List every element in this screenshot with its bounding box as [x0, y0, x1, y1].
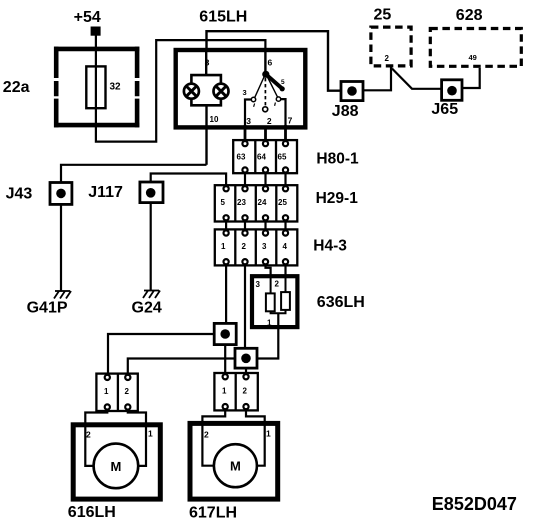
svg-text:1: 1: [266, 429, 271, 439]
svg-text:J65: J65: [431, 101, 458, 118]
ground G24 symbol: [143, 291, 160, 299]
svg-text:7: 7: [288, 116, 293, 126]
connector H4-3: [215, 229, 297, 265]
wire lamp pin 10 down: [205, 105, 207, 164]
svg-text:5: 5: [221, 198, 226, 207]
wire 616LH connector to motor pin 1: [128, 410, 146, 426]
svg-text:65: 65: [278, 153, 287, 162]
wire pin 49 of 628 to J65: [462, 68, 480, 88]
node +54 terminal square: [91, 27, 101, 36]
wire J88 to pin 2 of 25: [363, 68, 391, 91]
wire H4-3 pin 3 to 636LH pin 3: [266, 265, 271, 276]
wire J43 to ground G41P: [60, 204, 62, 291]
wire 617LH connector to motor pin 2: [202, 410, 225, 425]
wire H4-3 pin 4 to 636LH pin 2: [284, 265, 286, 276]
svg-text:E852D047: E852D047: [432, 494, 517, 514]
switch leg pin 7: [281, 99, 286, 125]
svg-text:49: 49: [469, 53, 477, 62]
wire J117 to ground G24: [150, 203, 152, 291]
svg-text:3: 3: [246, 116, 251, 126]
svg-text:24: 24: [258, 198, 267, 207]
svg-text:1: 1: [148, 429, 153, 439]
svg-text:2: 2: [242, 242, 247, 251]
switch lever: [266, 74, 282, 88]
wire J117 to H29-1 pin 5: [151, 174, 226, 186]
svg-text:2: 2: [86, 430, 91, 440]
svg-text:3: 3: [262, 242, 267, 251]
wires 615LH pins 3 2 7 to H80-1: [244, 125, 247, 141]
connector 628 dashed box: [430, 29, 521, 67]
resistor unit 636LH box: [252, 276, 297, 327]
switch left throw line: [255, 77, 264, 98]
svg-text:25: 25: [374, 7, 392, 24]
wire 636LH pin 1 to junction B: [257, 313, 278, 358]
svg-text:615LH: 615LH: [199, 9, 247, 26]
wire junction A to 617LH connector pin 1: [224, 345, 226, 374]
wire H4-3 pin 1 to junction A: [225, 265, 227, 324]
motor 617LH box: [190, 423, 278, 499]
tick below right contact: [274, 103, 277, 106]
lamp L2 right bulb: [214, 84, 229, 99]
svg-text:H29-1: H29-1: [316, 190, 359, 207]
svg-text:63: 63: [237, 153, 246, 162]
switch mid dashed line: [264, 78, 266, 106]
ground G41P symbol: [54, 291, 71, 299]
resistor R2 right: [285, 276, 287, 292]
svg-text:1: 1: [104, 387, 109, 396]
junction J88: [341, 82, 363, 101]
wire resistor bottoms join: [271, 310, 286, 313]
wire junction B to 617LH connector pin 2: [245, 368, 247, 374]
svg-text:6: 6: [268, 58, 273, 68]
svg-text:617LH: 617LH: [189, 505, 237, 522]
svg-text:5: 5: [281, 79, 285, 86]
svg-text:25: 25: [278, 198, 287, 207]
junction J43: [50, 183, 72, 205]
switch right contact: [276, 97, 280, 101]
svg-text:M: M: [230, 459, 241, 474]
wire H4-3 pin 2 to junction B: [244, 265, 246, 348]
svg-text:2: 2: [275, 280, 280, 289]
switch S1 pin 6 stem: [264, 49, 266, 74]
motor 616LH box: [73, 425, 160, 499]
svg-text:2: 2: [204, 430, 209, 440]
junction J117: [140, 182, 163, 203]
connector H29-1: [215, 185, 297, 221]
wires H29-1 to H4-3: [225, 222, 227, 235]
combination switch unit 615LH box: [176, 50, 306, 127]
lamp bracket bottom: [191, 98, 221, 105]
connector above 617LH: [214, 373, 257, 410]
switch left contact: [251, 97, 255, 101]
junction A box: [214, 323, 236, 344]
svg-text:10: 10: [210, 115, 219, 124]
wires H80-1 to H29-1: [244, 173, 246, 186]
svg-text:22a: 22a: [3, 79, 30, 96]
lamp bracket top: [191, 75, 221, 84]
svg-text:2: 2: [243, 387, 248, 396]
wire +54 to fuse 22a: [95, 36, 97, 68]
svg-text:M: M: [110, 459, 121, 474]
wire 616LH inner left: [85, 426, 93, 466]
svg-text:J88: J88: [332, 103, 359, 120]
wire 616LH inner right: [138, 426, 146, 466]
svg-text:2: 2: [385, 54, 390, 63]
switch mid contact: [263, 107, 268, 112]
svg-text:H4-3: H4-3: [313, 238, 347, 255]
svg-text:636LH: 636LH: [317, 294, 365, 311]
junction B box: [235, 348, 257, 368]
connector 25 dashed box: [371, 27, 411, 66]
svg-text:1: 1: [267, 319, 272, 328]
wire pin 10 to J43: [61, 165, 207, 183]
svg-text:H80-1: H80-1: [316, 150, 359, 167]
svg-text:32: 32: [110, 81, 122, 92]
wire 617LH connector to motor pin 1: [246, 410, 265, 425]
switch leg pin 3: [245, 100, 251, 126]
wire junction B to 616LH connector pin 2: [128, 359, 235, 375]
svg-text:3: 3: [243, 88, 247, 97]
switch right throw line: [268, 77, 278, 97]
resistor R1 left: [270, 276, 272, 293]
wire junction A to 616LH connector pin 1: [108, 334, 214, 374]
svg-text:J43: J43: [6, 186, 33, 203]
wire lamp pin 8 to J88: [207, 31, 342, 90]
svg-text:+54: +54: [74, 9, 101, 26]
connector H80-1: [233, 140, 297, 173]
lamp L1 left bulb: [184, 84, 199, 99]
motor M 617LH: [214, 444, 257, 487]
svg-text:616LH: 616LH: [68, 504, 116, 521]
wire 616LH connector to motor pin 2: [85, 410, 107, 426]
junction J65: [442, 80, 462, 101]
wire 617LH inner left: [202, 425, 214, 466]
switch pivot: [262, 71, 269, 78]
wire 617LH inner right: [257, 425, 265, 466]
svg-text:1: 1: [221, 242, 226, 251]
svg-text:J117: J117: [88, 184, 123, 201]
svg-text:1: 1: [222, 387, 227, 396]
svg-text:G41P: G41P: [27, 300, 68, 317]
connector above 616LH: [96, 374, 137, 411]
svg-text:2: 2: [125, 387, 130, 396]
svg-text:G24: G24: [132, 300, 162, 317]
svg-text:2: 2: [267, 116, 272, 126]
fuse holder 22a box: [54, 47, 139, 128]
svg-text:64: 64: [257, 153, 266, 162]
svg-text:3: 3: [256, 280, 261, 289]
svg-text:628: 628: [456, 7, 483, 24]
motor M 616LH: [94, 444, 139, 489]
wire pin 2 of 25 to J65: [392, 69, 442, 89]
wire fuse 22a to switch pin 6 of 615LH: [96, 40, 266, 142]
svg-text:23: 23: [237, 198, 246, 207]
fuse 32 element: [86, 66, 105, 108]
svg-text:4: 4: [283, 242, 288, 251]
tick below left contact: [254, 104, 255, 107]
